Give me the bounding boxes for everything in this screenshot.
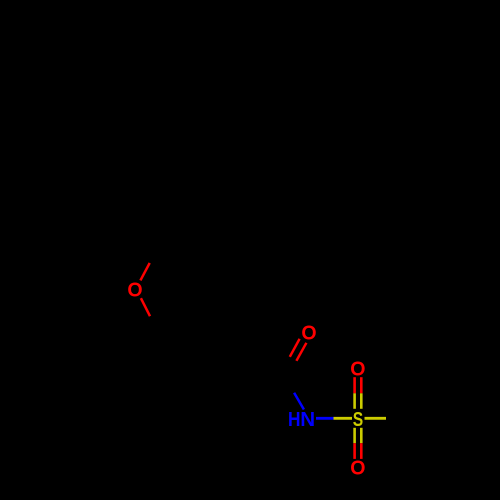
bond S-CH3 yellow half — [365, 417, 387, 420]
bond S=O upper, line 1 red half — [353, 377, 356, 393]
bond S=O lower, line 1 yellow half — [353, 428, 356, 443]
svg-text:N: N — [300, 408, 315, 431]
svg-text:O: O — [350, 457, 365, 480]
bond S=O upper, line 1 yellow half — [353, 393, 356, 409]
svg-text:S: S — [353, 407, 363, 431]
atom H of HN — [288, 409, 300, 432]
bond N-S blue half — [316, 417, 334, 420]
bond N-S yellow half — [334, 417, 353, 420]
svg-text:O: O — [301, 322, 316, 345]
bond S=O lower, line 2 red half — [360, 443, 363, 459]
atom S — [353, 407, 363, 431]
atom O sulfonyl upper — [350, 358, 365, 381]
svg-text:O: O — [350, 358, 365, 381]
bond S=O lower, line 1 red half — [353, 443, 356, 459]
atom O methoxy — [127, 279, 142, 302]
bond C=O carbonyl red half line 1 — [290, 339, 300, 357]
bond C=O carbonyl red half line 2 — [296, 343, 306, 361]
atom O carbonyl — [301, 322, 316, 345]
bond S=O upper, line 2 red half — [360, 377, 363, 393]
bond O(methoxy)-CH3 red half — [140, 263, 149, 281]
atom O sulfonyl lower — [350, 457, 365, 480]
bond S=O lower, line 2 yellow half — [360, 428, 363, 443]
svg-text:O: O — [127, 279, 142, 302]
bond S=O upper, line 2 yellow half — [360, 393, 363, 409]
bond N-C(=O) blue half — [294, 393, 304, 410]
svg-text:H: H — [288, 409, 300, 432]
atom N of HN — [300, 408, 315, 431]
bond O(methoxy)-ring red half — [141, 298, 150, 316]
